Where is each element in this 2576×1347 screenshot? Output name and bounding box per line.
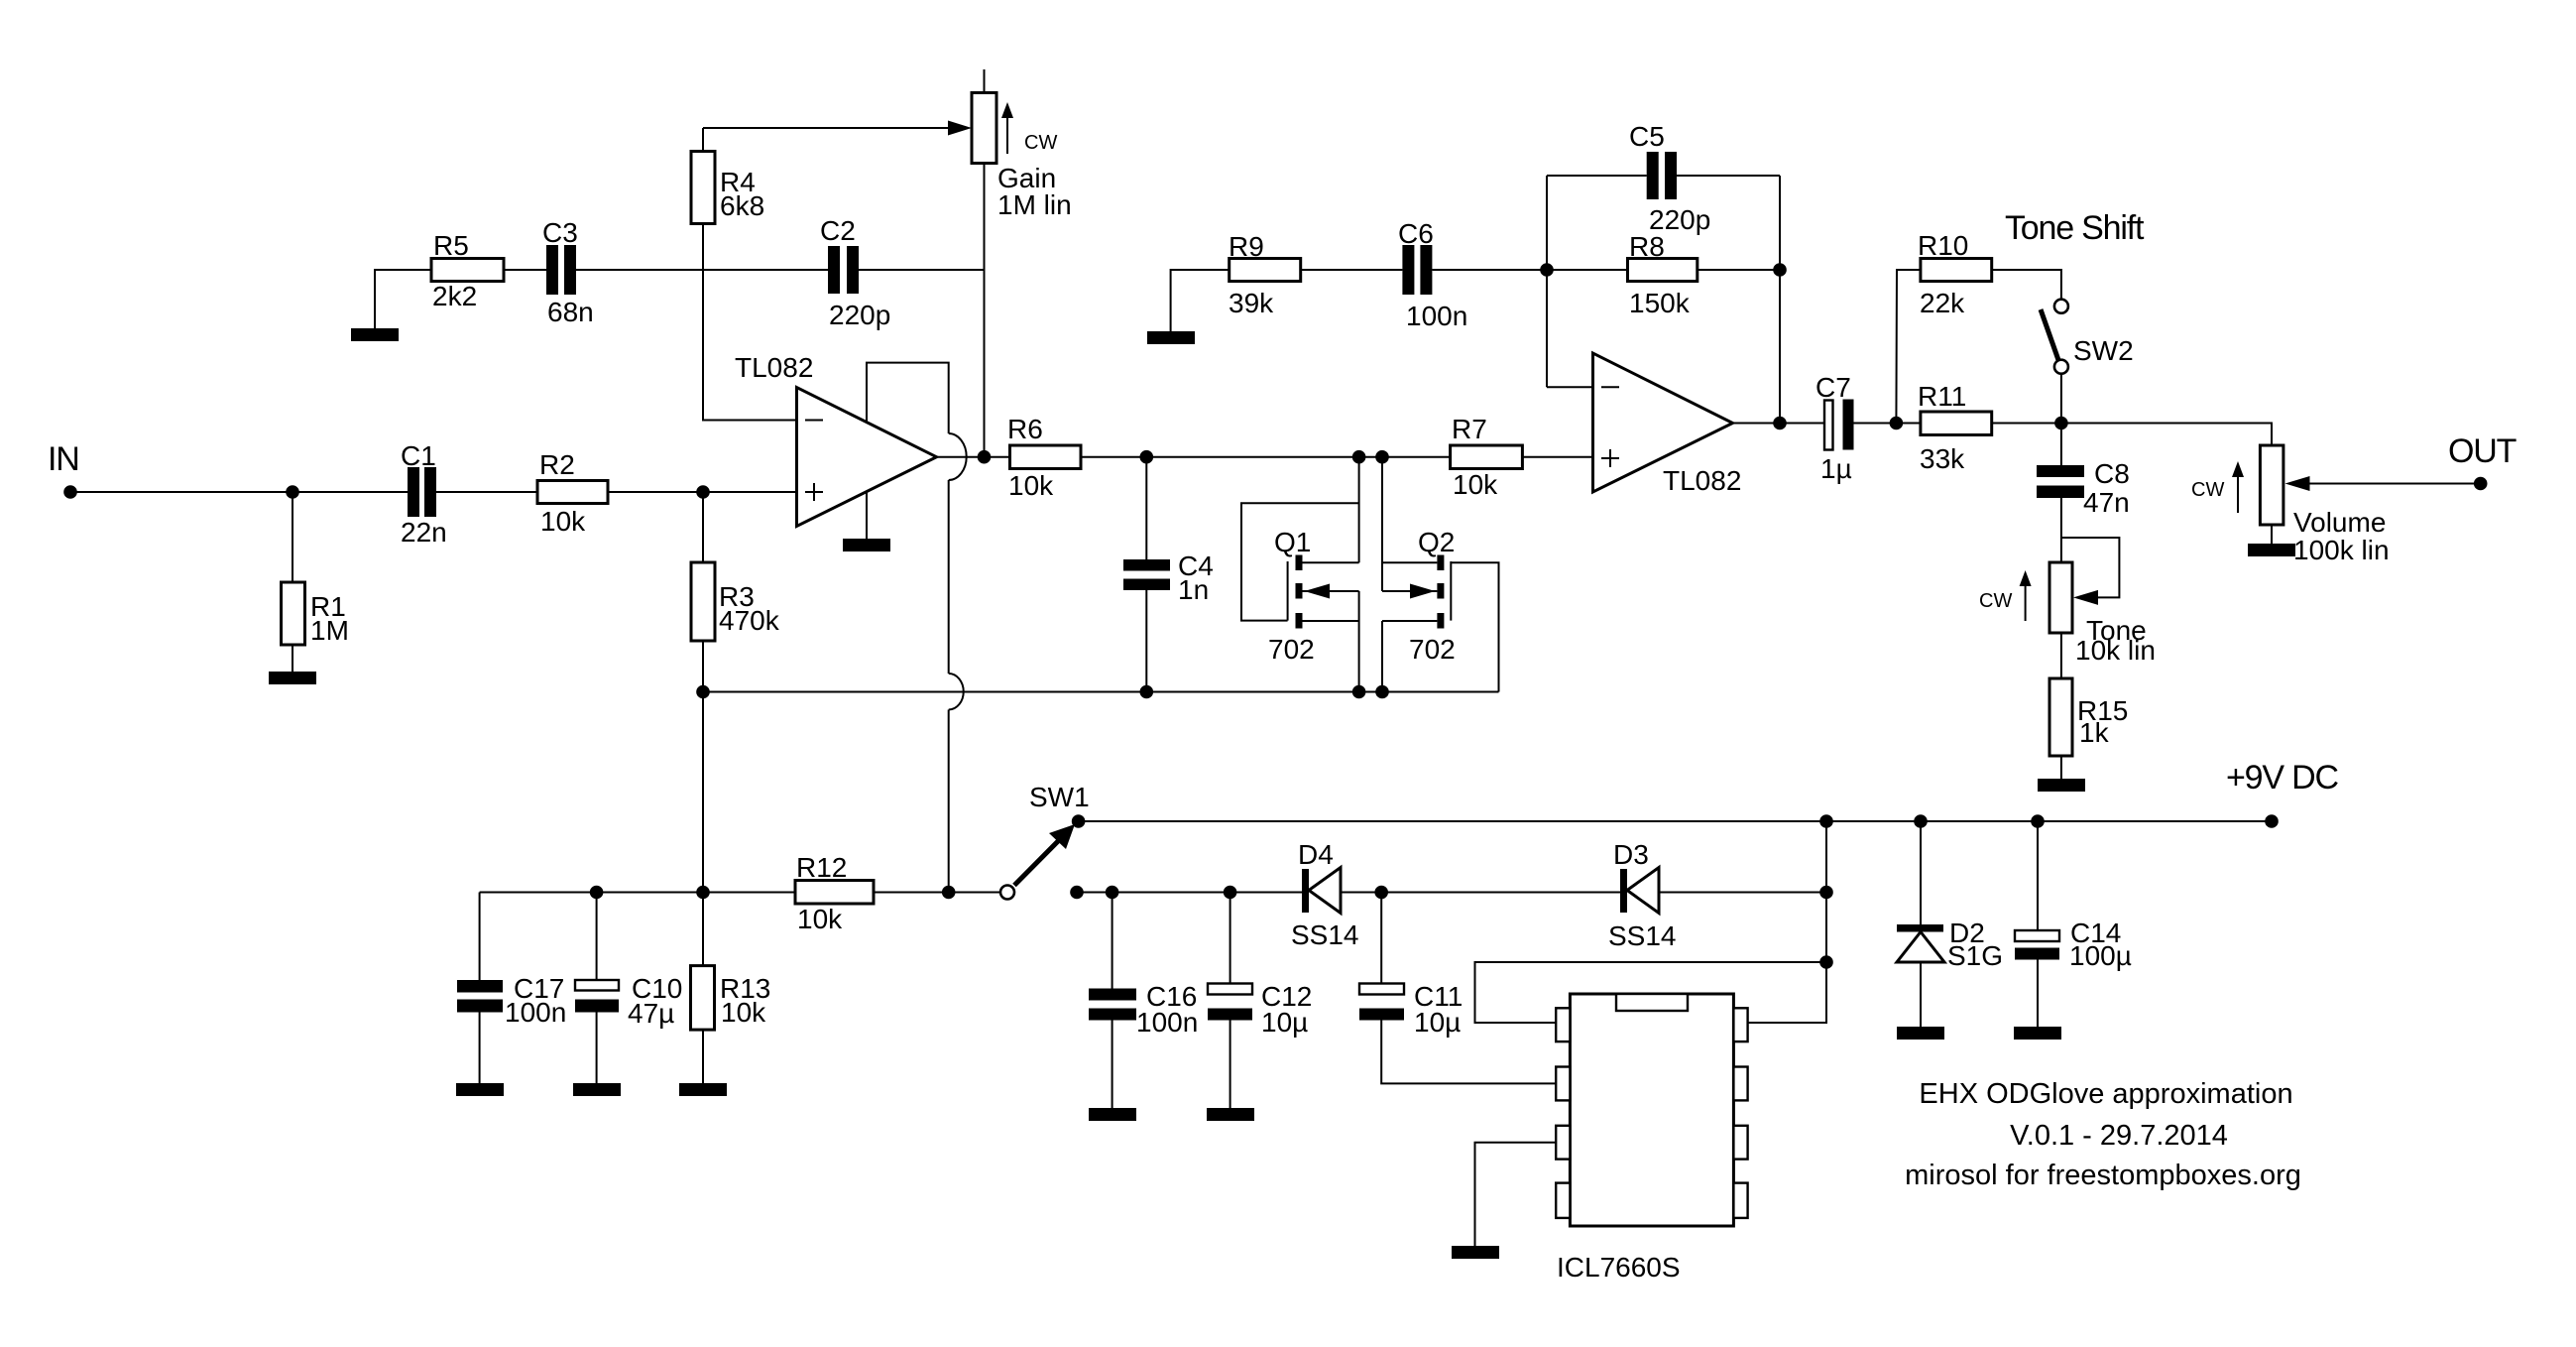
pin 6 stub xyxy=(1733,1126,1747,1160)
wire +9V rail xyxy=(1079,820,2272,822)
wire C4 bottom lead xyxy=(1145,590,1147,692)
diode D3 SS14 xyxy=(1608,839,1677,951)
pin 2 stub xyxy=(1556,1067,1570,1101)
wire vref column down to R12 node xyxy=(702,692,704,966)
svg-text:100n: 100n xyxy=(1406,301,1467,331)
potentiometer Gain 1M lin xyxy=(972,69,1072,220)
wire C16 bottom lead xyxy=(1112,1021,1113,1109)
junction feedback right at R8 xyxy=(1773,263,1787,277)
capacitor C16 xyxy=(1089,981,1198,1038)
capacitor C1 xyxy=(401,440,447,548)
junction op-amp2 - input column xyxy=(1540,263,1554,277)
wire Gain pot bottom to op-amp1 output node xyxy=(984,164,986,457)
resistor R13 xyxy=(691,966,771,1031)
wire Volume wiper to OUT xyxy=(2305,483,2481,485)
svg-text:R6: R6 xyxy=(1007,414,1043,444)
wire R5 to C3 xyxy=(504,269,546,271)
resistor R10 xyxy=(1918,230,1992,318)
node IN xyxy=(48,440,79,499)
resistor R1 xyxy=(282,582,349,646)
svg-text:33k: 33k xyxy=(1920,443,1965,474)
wire C16 top lead xyxy=(1112,893,1113,989)
ground at R15 xyxy=(2038,779,2085,792)
ground at C17 xyxy=(456,1083,504,1096)
svg-text:IN: IN xyxy=(48,440,79,478)
wire op-amp1 feedback bracket xyxy=(867,363,949,433)
wire D2 bottom lead xyxy=(1920,962,1922,1027)
transistor Q1 xyxy=(1241,503,1359,665)
pin 4 stub xyxy=(1556,1183,1570,1218)
capacitor C3 xyxy=(542,217,594,327)
wire R7 to op-amp2 + input xyxy=(1522,456,1592,458)
wire left rail bend to C17 xyxy=(479,893,481,981)
wire supply row to D4 xyxy=(1077,892,1302,894)
svg-text:1µ: 1µ xyxy=(1820,453,1852,484)
ground at R1 xyxy=(269,672,316,684)
svg-text:SS14: SS14 xyxy=(1291,919,1359,950)
pin 1 stub xyxy=(1556,1008,1570,1041)
svg-text:702: 702 xyxy=(1268,634,1315,665)
wire hop over vref rail xyxy=(949,673,964,710)
transistor Q2 xyxy=(1382,527,1499,692)
ground at R13 xyxy=(679,1083,727,1096)
wire Volume pot bottom xyxy=(2271,525,2273,544)
wire Tone wiper loop xyxy=(2061,538,2120,597)
wire IN to junction R1 xyxy=(70,491,293,493)
node OUT xyxy=(2448,432,2517,490)
junction vref rail at Q2 column xyxy=(1375,685,1389,699)
ground at C16 xyxy=(1089,1108,1136,1121)
svg-text:C1: C1 xyxy=(401,440,436,471)
svg-text:Q2: Q2 xyxy=(1418,527,1455,557)
svg-text:SW1: SW1 xyxy=(1029,782,1090,812)
wire R12 to SW1 xyxy=(874,892,1000,894)
wire Q2 drain column (node A) xyxy=(1381,457,1383,591)
wire R2 to node plus1 xyxy=(608,491,703,493)
svg-text:100n: 100n xyxy=(1136,1007,1198,1038)
wire C3 to C2 (through R4 node) xyxy=(576,269,828,271)
svg-text:1M lin: 1M lin xyxy=(997,189,1072,220)
junction vref rail at Q1 column xyxy=(1352,685,1366,699)
switch SW2 xyxy=(2041,300,2134,374)
wire bracket vertical down xyxy=(948,480,950,673)
junction at C16 xyxy=(1106,886,1119,900)
svg-text:D4: D4 xyxy=(1298,839,1334,870)
svg-text:220p: 220p xyxy=(829,300,890,330)
resistor R9 xyxy=(1229,231,1301,318)
ground at R5 xyxy=(351,328,399,341)
svg-text:Volume: Volume xyxy=(2293,507,2386,538)
svg-text:R2: R2 xyxy=(539,449,575,480)
wire hop over output xyxy=(949,433,967,480)
junction V+ column at supply row xyxy=(1819,886,1833,900)
wire op-amp2 output xyxy=(1733,423,1825,425)
wire feedback line to Gain pot xyxy=(703,127,950,129)
resistor R3 xyxy=(691,562,780,641)
svg-text:1n: 1n xyxy=(1178,574,1209,605)
pin 5 stub xyxy=(1733,1183,1747,1218)
ground at C12 xyxy=(1207,1108,1254,1121)
svg-text:702: 702 xyxy=(1409,634,1456,665)
svg-text:10k lin: 10k lin xyxy=(2075,635,2156,666)
resistor R8 xyxy=(1628,231,1698,318)
capacitor C6 xyxy=(1398,218,1467,331)
wire R11 to Volume pot xyxy=(1992,424,2272,446)
wire C8 top lead xyxy=(2060,424,2062,466)
svg-text:100n: 100n xyxy=(505,997,566,1028)
wire SW2 bottom to R11 node xyxy=(2060,374,2062,424)
wire op-amp2 - input xyxy=(1547,386,1593,388)
junction at R13 / R12 xyxy=(696,886,710,900)
wire R8 to feedback right vertical xyxy=(1698,269,1780,271)
svg-text:10µ: 10µ xyxy=(1414,1007,1461,1038)
junction bracket column at SW1 wire xyxy=(942,886,956,900)
junction SW1 top contact / +9V rail xyxy=(1072,814,1086,828)
svg-text:10k: 10k xyxy=(1453,469,1498,500)
wire D3 to V+ column xyxy=(1659,892,1826,894)
wire C17 bottom lead xyxy=(479,1013,481,1084)
wire op-amp1 output xyxy=(937,456,1010,458)
capacitor C2 xyxy=(820,215,890,330)
wire junction to C1 xyxy=(293,491,408,493)
wire Q1 drain column (node A) xyxy=(1358,457,1360,563)
junction C4 at vref rail xyxy=(1140,685,1154,699)
svg-text:10µ: 10µ xyxy=(1261,1007,1308,1038)
wire C7 to R11 node xyxy=(1854,423,1921,425)
wire R15 bottom lead xyxy=(2060,756,2062,779)
svg-text:100k lin: 100k lin xyxy=(2293,535,2390,565)
wire R13 bottom lead xyxy=(702,1030,704,1083)
svg-text:R11: R11 xyxy=(1918,381,1966,412)
svg-text:10k: 10k xyxy=(797,904,843,934)
op-amp U2 TL082 xyxy=(1593,353,1742,496)
wire vref junction to left rail xyxy=(480,892,795,894)
wire C14 top lead xyxy=(2037,821,2039,930)
svg-text:Tone Shift: Tone Shift xyxy=(2005,209,2145,247)
svg-text:S1G: S1G xyxy=(1947,940,2003,971)
capacitor C12 xyxy=(1208,981,1312,1038)
node +9V terminal xyxy=(2265,814,2279,828)
junction at R1 top xyxy=(286,485,299,499)
wire C5 top right xyxy=(1677,175,1780,177)
junction at C11 xyxy=(1374,886,1388,900)
wire feedback left vertical xyxy=(1546,176,1548,387)
wire feedback right vertical xyxy=(1779,176,1781,424)
svg-text:10k: 10k xyxy=(540,506,586,537)
wire C1 to R2 xyxy=(436,491,537,493)
wire R3 top lead xyxy=(702,492,704,562)
svg-text:C5: C5 xyxy=(1629,121,1665,152)
wire pin1 line xyxy=(1475,962,1827,1023)
capacitor C14 xyxy=(2015,918,2132,971)
wire R4 bottom to op-amp1 - input xyxy=(703,224,797,421)
svg-text:22k: 22k xyxy=(1920,288,1965,318)
svg-text:470k: 470k xyxy=(719,605,780,636)
svg-text:68n: 68n xyxy=(547,297,594,327)
svg-text:mirosol for freestompboxes.org: mirosol for freestompboxes.org xyxy=(1905,1160,2301,1191)
wire chip pin 3 to ground xyxy=(1475,1143,1557,1246)
pin 8 stub xyxy=(1733,1008,1747,1041)
svg-text:ICL7660S: ICL7660S xyxy=(1557,1252,1681,1283)
wire R6 to R7 (node A) xyxy=(1081,456,1451,458)
wire R10 to SW2 top xyxy=(1992,270,2061,300)
ground at D2 xyxy=(1897,1027,1944,1040)
title text block xyxy=(1905,1078,2301,1191)
svg-text:Q1: Q1 xyxy=(1274,527,1311,557)
capacitor C10 xyxy=(575,973,682,1029)
junction node A at Q2 column xyxy=(1375,450,1389,464)
resistor R15 xyxy=(2049,678,2128,756)
wire R10/R11 left vertical xyxy=(1896,270,1921,424)
wire C11 bottom to chip pin 2 xyxy=(1381,1021,1556,1084)
wire C8 bottom to Tone pot top xyxy=(2060,498,2062,562)
wire C11 top lead xyxy=(1380,893,1382,984)
svg-text:C6: C6 xyxy=(1398,218,1434,249)
wire C10 bottom lead xyxy=(596,1013,598,1084)
junction at C12 xyxy=(1224,886,1237,900)
svg-text:R10: R10 xyxy=(1918,230,1968,261)
svg-text:100µ: 100µ xyxy=(2069,940,2132,971)
wire Q2 source column (vref) xyxy=(1381,621,1383,692)
resistor R11 xyxy=(1918,381,1992,474)
svg-text:47µ: 47µ xyxy=(628,998,674,1029)
wire C12 bottom lead xyxy=(1229,1021,1231,1109)
wire Tone pot to R15 xyxy=(2060,633,2062,678)
capacitor C5 xyxy=(1629,121,1710,235)
ground at chip xyxy=(1452,1246,1499,1259)
node supply row left end xyxy=(1070,886,1084,900)
junction V+ column at +9V rail xyxy=(1819,814,1833,828)
svg-text:6k8: 6k8 xyxy=(720,190,764,221)
pin 3 stub xyxy=(1556,1126,1570,1160)
svg-text:EHX ODGlove approximation: EHX ODGlove approximation xyxy=(1919,1078,2292,1110)
junction R11 / SW2 / C8 xyxy=(2054,417,2068,430)
wire R4 top to feedback line xyxy=(702,128,704,152)
wire R1 bottom lead xyxy=(292,645,293,672)
arrowhead Tone wiper xyxy=(2073,590,2098,605)
wire ground to R9 xyxy=(1171,270,1229,331)
svg-text:39k: 39k xyxy=(1229,288,1274,318)
wire R3 bottom lead xyxy=(702,641,704,692)
junction D2 at +9V rail xyxy=(1914,814,1928,828)
svg-text:SS14: SS14 xyxy=(1608,920,1677,951)
svg-text:C7: C7 xyxy=(1815,372,1851,403)
wire C4 top lead xyxy=(1145,457,1147,559)
svg-text:R7: R7 xyxy=(1452,414,1487,444)
arrowhead Volume wiper xyxy=(2285,476,2310,491)
resistor R2 xyxy=(537,449,608,537)
wire C12 top lead xyxy=(1229,893,1231,984)
junction node A at Q1 column xyxy=(1352,450,1366,464)
svg-text:C2: C2 xyxy=(820,215,856,246)
wire vref rail xyxy=(703,691,1499,693)
wire ground to R5 xyxy=(375,270,431,328)
svg-text:10k: 10k xyxy=(721,997,766,1028)
IC U3 ICL7660S xyxy=(1557,994,1733,1283)
ground at R9 xyxy=(1147,331,1195,344)
svg-text:CW: CW xyxy=(2191,479,2224,501)
diode D2 S1G xyxy=(1897,821,2003,971)
wire C2 to Gain pot bottom column xyxy=(859,269,985,271)
junction op-amp2 output / feedback xyxy=(1773,417,1787,430)
svg-text:+9V DC: +9V DC xyxy=(2226,759,2338,796)
wire op-amp1 ground stub xyxy=(866,492,868,539)
potentiometer Volume 100k lin xyxy=(2191,445,2390,565)
wire C5 top left xyxy=(1547,175,1647,177)
resistor R5 xyxy=(431,230,504,311)
svg-text:V.0.1 - 29.7.2014: V.0.1 - 29.7.2014 xyxy=(2010,1120,2228,1152)
pin 7 stub xyxy=(1733,1067,1747,1101)
capacitor C7 xyxy=(1815,372,1854,484)
wire + input op-amp1 xyxy=(703,491,797,493)
svg-text:TL082: TL082 xyxy=(1663,465,1741,496)
svg-text:C3: C3 xyxy=(542,217,578,248)
wire R1 top lead xyxy=(292,492,293,582)
svg-text:2k2: 2k2 xyxy=(432,281,477,311)
svg-text:10k: 10k xyxy=(1008,470,1054,501)
resistor R6 xyxy=(1007,414,1081,501)
junction at C10 xyxy=(590,886,604,900)
svg-text:1k: 1k xyxy=(2079,717,2110,748)
wire Q1 source column (vref) xyxy=(1358,591,1360,692)
svg-text:R5: R5 xyxy=(433,230,469,261)
svg-text:C8: C8 xyxy=(2094,458,2130,489)
svg-text:CW: CW xyxy=(1979,590,2012,612)
svg-text:R8: R8 xyxy=(1629,231,1665,262)
wire V+ column to chip pin 8 xyxy=(1748,821,1826,1023)
ground at C10 xyxy=(573,1083,621,1096)
wire R9 to C6 xyxy=(1301,269,1403,271)
switch SW1 xyxy=(1000,782,1090,900)
junction at op-amp1 + input / R3 top xyxy=(696,485,710,499)
svg-text:D3: D3 xyxy=(1613,839,1649,870)
ground at op-amp1 xyxy=(843,539,890,551)
junction R10/R11 left column xyxy=(1890,417,1904,430)
svg-text:47n: 47n xyxy=(2083,487,2130,518)
diode D4 SS14 xyxy=(1291,839,1359,950)
capacitor C11 xyxy=(1359,981,1463,1038)
svg-text:22n: 22n xyxy=(401,517,447,548)
wire D4 to D3 xyxy=(1341,892,1620,894)
op-amp U1 TL082 xyxy=(735,352,937,527)
arrowhead into Gain pot wiper xyxy=(948,121,972,136)
svg-text:R9: R9 xyxy=(1229,231,1264,262)
svg-text:CW: CW xyxy=(1024,132,1057,154)
capacitor C4 xyxy=(1123,551,1214,605)
junction V+ column at pin1 line xyxy=(1819,955,1833,969)
wire C10 top lead xyxy=(596,893,598,981)
capacitor C8 xyxy=(2037,458,2130,518)
junction node A at C4 xyxy=(1140,450,1154,464)
svg-text:TL082: TL082 xyxy=(735,352,813,383)
wire C6 to feedback node xyxy=(1432,269,1627,271)
junction C14 at +9V rail xyxy=(2031,814,2045,828)
junction R3 bottom / vref rail xyxy=(696,685,710,699)
capacitor C17 xyxy=(457,973,566,1028)
resistor R7 xyxy=(1451,414,1523,500)
svg-text:SW2: SW2 xyxy=(2073,335,2134,366)
svg-text:R12: R12 xyxy=(796,852,847,883)
potentiometer Tone 10k lin xyxy=(1979,562,2156,666)
ground at C14 xyxy=(2014,1027,2061,1040)
svg-text:OUT: OUT xyxy=(2448,432,2517,470)
svg-text:150k: 150k xyxy=(1629,288,1691,318)
junction op-amp1 output / Gain pot xyxy=(978,450,992,464)
wire bracket vertical to SW1 junction xyxy=(948,710,950,893)
wire C14 bottom lead xyxy=(2037,960,2039,1028)
ground at Volume pot xyxy=(2248,544,2295,556)
resistor R12 xyxy=(795,852,874,934)
svg-text:1M: 1M xyxy=(310,615,349,646)
resistor R4 xyxy=(691,152,764,224)
